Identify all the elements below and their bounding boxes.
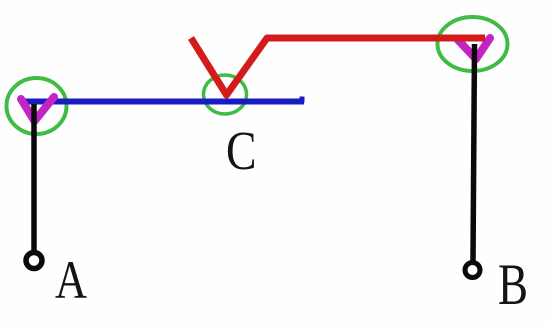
magenta check mark at A: [21, 97, 54, 121]
svg-text:C: C: [226, 120, 257, 181]
node B green circle: [438, 17, 508, 71]
ring at A: [26, 253, 42, 269]
ring at B: [465, 263, 480, 278]
svg-text:B: B: [498, 252, 528, 317]
blue rod end nub: [300, 97, 305, 103]
node C green circle: [204, 75, 247, 114]
wire blue rod A-C: [20, 99, 304, 105]
wire red rod C-B: [191, 38, 485, 95]
node A green circle: [7, 78, 67, 134]
magenta check mark at B: [458, 38, 490, 59]
wire plumb line at A: [31, 104, 37, 251]
svg-text:A: A: [55, 250, 87, 310]
wire plumb line at B: [473, 44, 475, 261]
